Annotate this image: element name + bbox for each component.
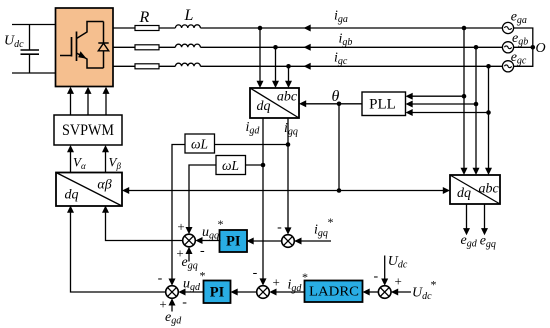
svg-text:-: -	[158, 271, 163, 286]
dq-alphabeta transform block	[56, 173, 122, 207]
svg-text:PI: PI	[226, 234, 241, 250]
wire i_gd down	[262, 118, 264, 279]
svg-text:SVPWM: SVPWM	[62, 122, 114, 139]
svg-text:*: *	[200, 269, 206, 283]
node phase b tap 2	[474, 45, 479, 50]
svg-text:+: +	[177, 219, 184, 234]
node PLL tap c	[486, 110, 491, 115]
svg-text:-: -	[277, 220, 282, 235]
diode antiparallel	[98, 22, 108, 69]
node theta	[337, 102, 342, 107]
svg-text:L: L	[184, 7, 194, 24]
source e_gc	[502, 61, 513, 72]
wire theta PLL to abc-dq	[306, 103, 363, 105]
wire DC top	[12, 24, 56, 26]
node phase a tap 1	[258, 26, 263, 31]
PI block q-axis	[220, 230, 248, 252]
wire theta drop	[338, 104, 340, 191]
omega-L block 1	[185, 134, 215, 153]
wire V_alpha	[70, 152, 72, 172]
node phase b tap 1	[273, 45, 278, 50]
inductor L phase a	[175, 25, 200, 28]
wire ic to abc-dq	[288, 66, 290, 81]
resistor R phase c	[135, 64, 159, 69]
inverter bridge block	[56, 8, 114, 87]
wire ia to abc-dq	[259, 28, 261, 81]
svg-text:dq: dq	[257, 99, 271, 114]
svg-text:θ: θ	[332, 88, 340, 105]
wire e_gq out	[484, 204, 486, 229]
svg-text:ωL: ωL	[222, 158, 239, 173]
svg-text:PI: PI	[210, 285, 225, 301]
svg-text:R: R	[139, 9, 150, 26]
wire LADRC to i_gd* sum	[276, 291, 305, 293]
svg-text:αβ: αβ	[97, 178, 111, 193]
wire i_gd* sum to PI	[237, 291, 257, 293]
wire neutral bus O	[514, 28, 533, 66]
summer u_gq	[183, 234, 196, 247]
wire theta distribution	[129, 190, 444, 192]
source e_gb	[502, 42, 513, 53]
summer U_dc	[378, 286, 391, 299]
wire bus a down	[463, 28, 465, 169]
wire ib to abc-dq	[275, 47, 277, 81]
SVPWM block	[54, 115, 122, 145]
wire phase a	[113, 27, 503, 29]
current arrow i_gc	[304, 63, 311, 70]
wire e_gq in	[188, 253, 190, 261]
resistor R phase b	[135, 45, 159, 50]
summer u_gd	[166, 286, 179, 299]
svg-text:dq: dq	[65, 188, 79, 203]
svg-text:O: O	[536, 41, 546, 56]
svg-text:+: +	[273, 275, 280, 290]
wire omegaL1 input from i_gq	[215, 144, 289, 146]
node theta distribution	[337, 188, 342, 193]
wire u_gq* to dq block	[106, 212, 183, 241]
wire i_gq* reference	[294, 240, 331, 242]
wire bus c down	[488, 66, 490, 168]
wire e_gd in	[171, 305, 173, 312]
svg-text:-: -	[253, 266, 258, 281]
inductor L phase b	[175, 44, 200, 47]
node omegaL2 tap	[261, 163, 266, 168]
svg-text:*: *	[218, 217, 224, 231]
wire e_gd out	[466, 204, 468, 229]
wire omegaL1 output to u_gd sum	[172, 145, 185, 280]
svg-text:*: *	[431, 278, 437, 292]
wire omegaL2 output to u_gq sum	[189, 165, 216, 228]
wire DC bottom	[12, 72, 56, 74]
LADRC block	[305, 281, 363, 303]
wire omegaL2 input from i_gd	[246, 164, 264, 166]
wire PLL input a	[412, 95, 464, 97]
wire i_gq down	[287, 118, 289, 228]
wire phase b	[113, 46, 503, 48]
source e_ga	[502, 22, 513, 33]
node phase c tap 1	[286, 64, 291, 69]
wire u_gd* to dq block	[71, 212, 166, 292]
wire V_beta	[105, 152, 107, 172]
svg-text:PLL: PLL	[369, 96, 396, 112]
wire PLL input b	[412, 103, 476, 105]
omega-L block 2	[216, 156, 246, 175]
current arrow i_ga	[304, 25, 311, 32]
wire PI to u_gd sum	[185, 291, 204, 293]
node phase c tap 2	[486, 64, 491, 69]
svg-text:abc: abc	[277, 90, 298, 105]
wire SVPWM gate c	[105, 93, 107, 115]
svg-text:abc: abc	[478, 182, 499, 197]
wire phase c	[113, 65, 503, 67]
wire U_dc sum to LADRC	[369, 291, 378, 293]
transistor IGBT	[60, 22, 104, 69]
node phase a tap 2	[462, 26, 467, 31]
wire SVPWM gate a	[70, 93, 72, 115]
node neutral bus	[531, 45, 536, 50]
svg-text:dq: dq	[457, 186, 471, 201]
svg-text:-: -	[182, 295, 187, 310]
summer i_gq*	[282, 235, 295, 248]
node PLL tap b	[474, 102, 479, 107]
svg-text:*: *	[302, 270, 308, 284]
wire PLL input c	[412, 112, 489, 114]
wire SVPWM gate b	[87, 93, 89, 115]
inductor L phase c	[175, 63, 200, 66]
summer i_gd*	[257, 286, 270, 299]
svg-text:LADRC: LADRC	[309, 284, 359, 299]
PI block d-axis	[204, 281, 231, 304]
svg-text:ωL: ωL	[191, 136, 208, 151]
wire PI to u_gq sum	[202, 240, 221, 242]
wire U_dc feedback	[384, 256, 386, 280]
svg-text:-: -	[373, 269, 378, 284]
wire bus b down	[475, 47, 477, 168]
svg-text:+: +	[395, 274, 402, 289]
capacitor Cdc	[21, 25, 40, 74]
PLL block	[362, 92, 406, 116]
svg-text:-: -	[200, 244, 205, 259]
svg-text:*: *	[328, 215, 334, 229]
abc-dq current transform block	[250, 88, 299, 118]
current arrow i_gb	[304, 44, 311, 51]
dq-abc voltage transform block	[450, 175, 500, 204]
wire U_dc* reference	[391, 291, 411, 293]
resistor R phase a	[135, 26, 159, 31]
node PLL tap a	[462, 94, 467, 99]
node omegaL1 tap	[286, 142, 291, 147]
wire i_gq* sum to PI	[253, 240, 282, 242]
